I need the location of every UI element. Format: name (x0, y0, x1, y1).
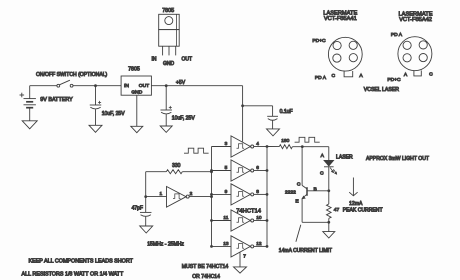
svg-text:9V BATTERY: 9V BATTERY (40, 97, 73, 103)
svg-text:1: 1 (159, 191, 162, 197)
svg-text:3: 3 (225, 141, 228, 147)
svg-text:ON/OFF SWITCH (OPTIONAL): ON/OFF SWITCH (OPTIONAL) (36, 72, 108, 78)
svg-text:5: 5 (225, 165, 228, 171)
svg-text:C: C (332, 73, 336, 79)
svg-text:PD+C: PD+C (312, 38, 326, 44)
svg-text:2: 2 (190, 191, 193, 197)
svg-text:APPROX 3mW LIGHT OUT: APPROX 3mW LIGHT OUT (366, 156, 429, 162)
svg-text:C: C (320, 171, 324, 177)
svg-text:LASER: LASER (336, 154, 353, 160)
svg-text:IN: IN (124, 83, 129, 89)
svg-text:7: 7 (243, 254, 246, 260)
svg-text:0.1uF: 0.1uF (280, 109, 293, 115)
svg-text:6: 6 (256, 165, 259, 171)
svg-text:47pF: 47pF (132, 206, 143, 212)
svg-text:13: 13 (223, 241, 229, 247)
svg-text:GND: GND (163, 61, 175, 67)
svg-text:VCT-F85A41: VCT-F85A41 (324, 16, 357, 22)
svg-text:330: 330 (172, 163, 181, 169)
svg-text:OUT: OUT (139, 83, 149, 89)
svg-text:PEAK CURRENT: PEAK CURRENT (343, 208, 383, 214)
svg-text:PD A: PD A (315, 75, 327, 81)
svg-text:C: C (429, 72, 433, 78)
svg-text:8: 8 (256, 189, 259, 195)
svg-text:7805: 7805 (162, 8, 174, 14)
svg-text:74HCT14: 74HCT14 (236, 208, 262, 214)
svg-text:4: 4 (256, 141, 259, 147)
svg-text:IN: IN (152, 57, 157, 63)
svg-text:11: 11 (223, 215, 228, 221)
svg-text:10uF, 25V: 10uF, 25V (102, 111, 126, 117)
svg-text:9: 9 (225, 189, 228, 195)
svg-text:OR 74HC14: OR 74HC14 (192, 274, 220, 280)
svg-text:+5V: +5V (176, 80, 186, 86)
svg-text:PD+C: PD+C (387, 77, 401, 83)
svg-text:C: C (297, 182, 301, 188)
svg-text:MUST BE 74HCT14: MUST BE 74HCT14 (182, 264, 229, 270)
svg-text:12mA: 12mA (349, 201, 363, 207)
svg-text:VCT-F85A42: VCT-F85A42 (399, 17, 432, 23)
svg-text:GND: GND (131, 90, 142, 96)
svg-text:47: 47 (334, 207, 340, 213)
svg-text:VCSEL LASER: VCSEL LASER (364, 87, 400, 93)
svg-text:10: 10 (256, 215, 262, 221)
svg-text:15MHz - 25MHz: 15MHz - 25MHz (147, 242, 184, 248)
svg-text:B: B (313, 186, 316, 192)
svg-text:12: 12 (256, 241, 262, 247)
svg-text:7805: 7805 (128, 66, 140, 72)
svg-text:10uF, 25V: 10uF, 25V (172, 115, 196, 121)
svg-text:180: 180 (281, 138, 289, 144)
svg-text:14mA CURRENT LIMIT: 14mA CURRENT LIMIT (279, 248, 332, 254)
svg-text:2222: 2222 (285, 189, 296, 195)
svg-text:ALL RESISTORS 1/8 WATT OR 1/4: ALL RESISTORS 1/8 WATT OR 1/4 WATT (22, 272, 124, 278)
svg-text:KEEP ALL COMPONENTS LEADS SHOR: KEEP ALL COMPONENTS LEADS SHORT (29, 259, 134, 265)
svg-text:PD A: PD A (391, 32, 403, 38)
svg-text:OUT: OUT (182, 56, 193, 62)
